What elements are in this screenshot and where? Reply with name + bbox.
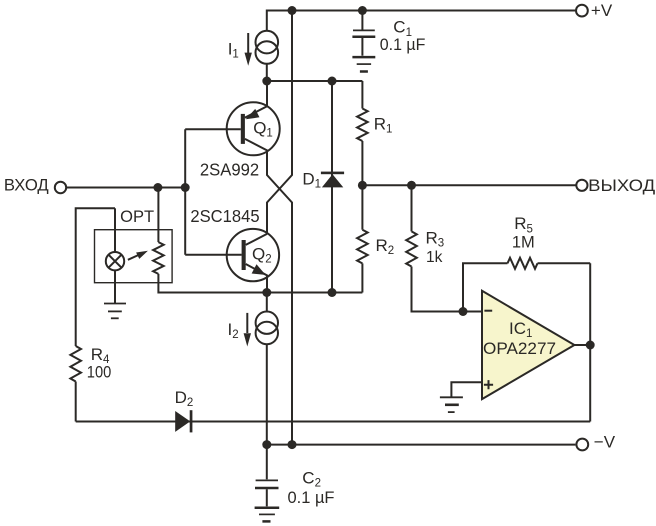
svg-text:100: 100 — [87, 362, 112, 381]
optocoupler OPT box — [95, 230, 173, 283]
diode D2 — [175, 410, 192, 432]
op-amp plus sign — [484, 380, 493, 389]
ground C2 — [255, 508, 280, 522]
terminal VHOD — [55, 182, 66, 193]
svg-text:ВЫХОД: ВЫХОД — [588, 176, 656, 195]
current source I2 — [256, 312, 278, 345]
junction node E1 — [262, 77, 271, 86]
junction rail drop on +V rail — [288, 6, 297, 15]
junction node E2 — [262, 288, 271, 297]
lamp (LED) of OPT — [106, 252, 124, 270]
transistor Q2 circle — [227, 229, 279, 281]
wire Q2 collector — [246, 234, 267, 245]
junction D1 top — [328, 77, 337, 86]
junction C1 on +V rail — [358, 6, 367, 15]
ground op-amp — [440, 397, 463, 412]
wire lamp to ground — [114, 270, 116, 303]
resistor R1 — [357, 81, 368, 185]
svg-text:+V: +V — [591, 1, 613, 20]
wire Q2 base lead — [185, 254, 241, 256]
op-amp minus sign — [484, 310, 492, 312]
junction I2-C2 on -V rail — [262, 440, 271, 449]
capacitor C2 — [255, 445, 279, 507]
junction op-amp output — [586, 341, 595, 350]
svg-text:−V: −V — [594, 433, 616, 452]
arrow Q1 emitter (PNP) — [247, 110, 259, 119]
terminal VYHOD — [576, 180, 587, 191]
junction D1 bottom — [328, 288, 337, 297]
wire -V rail — [267, 444, 576, 446]
arrow I2 — [244, 313, 251, 347]
wire node E2 to I2 — [266, 293, 268, 312]
wire output node — [362, 184, 575, 186]
svg-text:2SA992: 2SA992 — [200, 160, 259, 180]
wire +V drop to Q2 collector — [267, 11, 292, 234]
arrow I1 — [245, 33, 252, 66]
op-amp IC1 — [482, 291, 574, 399]
ground C1 — [352, 57, 375, 71]
wire Q1 emitter — [245, 81, 267, 118]
svg-text:2SC1845: 2SC1845 — [190, 206, 259, 226]
diode D1 — [321, 172, 344, 188]
photoresistor of OPT — [153, 188, 164, 274]
junction input-bases — [181, 183, 190, 192]
wire node E1 horizontal — [267, 80, 363, 82]
wire +V rail — [267, 11, 575, 32]
svg-text:0.1 µF: 0.1 µF — [288, 488, 335, 507]
junction Q1 collector on -V rail — [288, 440, 297, 449]
svg-text:0.1 µF: 0.1 µF — [380, 35, 426, 54]
transistor Q2 base bar — [242, 240, 246, 270]
terminal +V — [576, 5, 588, 17]
wire lamp top — [114, 208, 116, 252]
transistor Q1 base bar — [241, 114, 245, 144]
ground lamp — [104, 304, 126, 319]
wire feedback right — [538, 262, 591, 264]
transistor Q1 circle — [227, 102, 280, 155]
arrow Q2 emitter (NPN) — [252, 265, 264, 274]
wire inverting input — [463, 311, 482, 313]
resistor R5 — [508, 258, 538, 269]
wire D1 vertical — [331, 81, 333, 293]
arrow optical coupling — [128, 251, 148, 260]
resistor R4 — [70, 346, 81, 422]
wire feedback left — [463, 263, 508, 311]
svg-text:OPT: OPT — [120, 207, 154, 226]
capacitor C1 — [352, 11, 375, 56]
junction R1-R2 output — [358, 181, 367, 190]
terminal -V — [576, 439, 588, 451]
svg-text:1M: 1M — [512, 233, 535, 252]
wire input — [67, 187, 185, 189]
wire Q1 base lead — [185, 128, 241, 130]
wire noninverting input — [451, 382, 482, 396]
svg-text:1k: 1k — [426, 249, 443, 266]
wire node E2 horizontal — [158, 274, 362, 293]
wire I2 to -V rail — [266, 344, 268, 444]
wire I1 to node E1 — [266, 64, 268, 81]
svg-text:OPA2277: OPA2277 — [483, 339, 556, 358]
wire R4 top to lamp — [76, 208, 115, 346]
wire output drop to feedback and D2 — [589, 263, 591, 421]
wire base bus — [184, 129, 186, 255]
current source I1 — [255, 31, 278, 64]
svg-text:ВХОД: ВХОД — [4, 177, 49, 195]
wire Q2 emitter — [246, 264, 267, 293]
wire D2 line — [76, 421, 591, 423]
resistor R2 — [357, 185, 368, 292]
wire Q1 collector (cross-over to -V) — [245, 139, 292, 445]
junction R3 output — [407, 181, 416, 190]
wire op-amp output — [574, 344, 590, 346]
junction inverting input — [459, 307, 468, 316]
resistor R3 — [406, 185, 463, 311]
junction input-photoresistor — [153, 183, 162, 192]
